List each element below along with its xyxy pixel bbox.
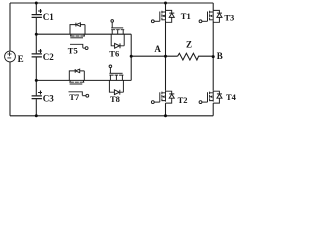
svg-text:A: A [154,44,161,54]
svg-text:E: E [18,54,24,64]
svg-text:C1: C1 [43,12,54,22]
svg-text:T4: T4 [226,92,237,102]
svg-text:T7: T7 [69,92,80,102]
svg-text:T2: T2 [178,95,188,105]
svg-text:B: B [217,51,223,61]
svg-text:T8: T8 [110,94,120,104]
svg-text:T3: T3 [224,12,234,22]
svg-text:T1: T1 [181,11,191,21]
svg-text:T5: T5 [68,46,78,56]
svg-text:Z: Z [186,40,192,50]
svg-text:C2: C2 [43,52,54,62]
svg-text:T6: T6 [109,48,119,58]
svg-text:C3: C3 [43,94,54,104]
